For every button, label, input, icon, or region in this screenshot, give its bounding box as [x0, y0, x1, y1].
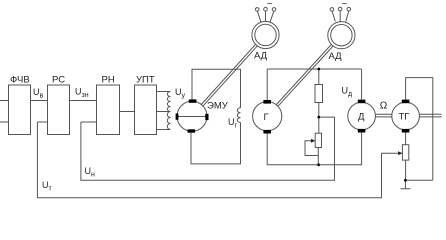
brush EMU left [176, 114, 179, 120]
svg-text:ЭМУ: ЭМУ [207, 101, 229, 112]
svg-text:Uд: Uд [342, 86, 353, 99]
brush TG bottom [402, 129, 410, 133]
wire bus to resistor [318, 69, 320, 85]
svg-text:Uу: Uу [175, 87, 186, 100]
shaft G-AD2 [276, 44, 333, 106]
brush G top [263, 100, 271, 104]
block UPT [135, 85, 157, 135]
shaft TG output [419, 114, 441, 117]
brush EMU right [205, 114, 208, 120]
motor D circle [348, 102, 376, 130]
shaft D-TG [375, 114, 391, 117]
coil control winding 2 [167, 112, 170, 130]
AD2 terminals [332, 11, 349, 22]
svg-text:Uн: Uн [85, 166, 96, 179]
wire EMU loop top [192, 69, 241, 108]
wire FCHV-RS [31, 100, 48, 102]
svg-text:Г: Г [264, 112, 269, 123]
brush G bottom [263, 130, 271, 134]
wire resistor to node [318, 103, 320, 118]
block FCHV [9, 85, 31, 135]
node TG ground [404, 179, 407, 182]
wire P2 to ground node [405, 160, 407, 180]
wire RS-RN [70, 100, 97, 102]
svg-text:АД: АД [329, 51, 343, 62]
resistor R divider [315, 85, 323, 103]
wire ground node to right [405, 179, 432, 181]
svg-text:Ω: Ω [380, 101, 388, 112]
wire input 2 [0, 121, 9, 123]
coil control winding 1 [167, 92, 170, 112]
wire armature plus bus [267, 68, 361, 70]
brush EMU top [189, 99, 197, 102]
block RS [48, 85, 70, 135]
svg-text:~: ~ [267, 0, 273, 10]
AD1 terminals [257, 11, 273, 22]
svg-text:Uт: Uт [42, 180, 53, 193]
wire input 1 [0, 100, 9, 102]
wire node to P1 [318, 117, 320, 133]
shaft EMU-AD1 [201, 44, 257, 106]
tachogenerator TG circle [392, 102, 420, 130]
wire EMU loop bottom [191, 123, 241, 164]
wire G bottom to armature minus [267, 131, 361, 165]
wire UPT out bottom [157, 129, 171, 131]
generator G circle [253, 102, 282, 131]
wire node to Un feedback [81, 117, 335, 180]
wire UPT out mid [157, 111, 171, 113]
potentiometer P2 [402, 145, 408, 160]
svg-text:Uг: Uг [228, 117, 238, 130]
wire TG top loop [406, 78, 433, 181]
svg-text:Uзн: Uзн [75, 87, 89, 100]
svg-text:ФЧВ: ФЧВ [10, 75, 30, 86]
wire EMU chord [177, 116, 207, 118]
wire RN-UPT [120, 111, 135, 113]
op-amp EMU circle [177, 101, 207, 131]
motor AD1 [252, 21, 279, 48]
coil generator field Ug [237, 108, 240, 123]
svg-text:АД: АД [254, 51, 268, 62]
wire P1 wiper loop [305, 141, 318, 156]
arrowhead P2 wiper [398, 151, 403, 155]
brush D bottom [358, 129, 366, 133]
svg-text:ТГ: ТГ [399, 112, 410, 123]
ground [400, 180, 410, 188]
svg-text:~: ~ [342, 0, 348, 10]
wire P1 to armature minus [317, 148, 319, 165]
svg-text:РС: РС [52, 75, 65, 86]
wire TG bottom to P2 [405, 133, 407, 145]
svg-text:УПТ: УПТ [136, 75, 155, 86]
arrowhead P1 wiper [311, 139, 316, 143]
block RN [97, 85, 120, 135]
motor AD2 [328, 22, 355, 49]
svg-text:РН: РН [102, 75, 115, 86]
node divider mid [317, 116, 320, 119]
brush EMU bottom [188, 129, 196, 132]
potentiometer P1 [315, 133, 321, 147]
node pot bottom [317, 163, 320, 166]
wire D top to bus [361, 69, 363, 100]
svg-text:Uв: Uв [33, 87, 44, 100]
brush TG top [402, 100, 410, 104]
brush D top [358, 100, 366, 104]
wire G top to bus [266, 69, 268, 100]
wire P2 wiper Ut feedback [37, 122, 400, 198]
wire UPT out top [157, 91, 171, 93]
svg-text:Д: Д [358, 112, 365, 123]
node divider top [317, 68, 320, 71]
